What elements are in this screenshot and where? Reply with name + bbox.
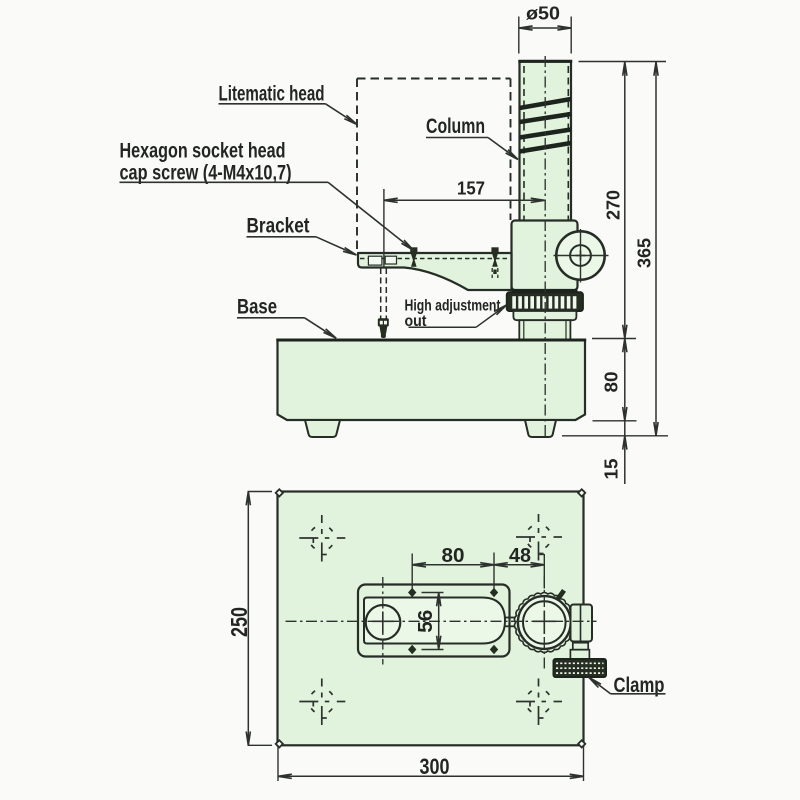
label Litematic head: [219, 83, 358, 125]
dimension 250: [226, 492, 272, 746]
spindle hole circle plan: [366, 605, 401, 640]
clamp ring outer circle: [518, 596, 571, 649]
svg-text:High adjustment: High adjustment: [405, 298, 501, 315]
dimension 15: [601, 421, 628, 484]
column spiral thread bands: [520, 99, 572, 152]
Litematic head dashed outline: [357, 79, 511, 254]
clamp knurled knob: [554, 659, 607, 677]
clamp ring inner circle: [523, 601, 566, 644]
clamp lever mark: [556, 589, 566, 601]
dimension 80 plan: [412, 544, 494, 590]
contact point: [378, 318, 389, 338]
base front view: [276, 340, 586, 420]
left foot: [305, 420, 340, 437]
label Bracket: [247, 215, 357, 256]
svg-text:Hexagon socket head: Hexagon socket head: [120, 140, 286, 163]
label Column: [426, 115, 518, 160]
label High adjustment out: [405, 298, 507, 331]
dimension 80 front: [601, 339, 628, 421]
label Base: [237, 296, 336, 339]
svg-text:270: 270: [603, 190, 624, 220]
bolt hole symbol top-right: [516, 514, 562, 561]
bolt hole symbol top-left: [299, 515, 345, 562]
housing bottom line: [512, 289, 578, 292]
column inner dashed lines: [524, 66, 568, 291]
svg-text:Litematic head: Litematic head: [219, 83, 325, 106]
dimension 300: [278, 745, 584, 781]
fine adjustment knob: [554, 229, 609, 283]
hexagon socket head cap screw 1: [410, 247, 417, 266]
svg-text:365: 365: [634, 238, 655, 268]
clamp neck: [570, 643, 589, 659]
housing block: [512, 221, 578, 291]
bracket plan inner slot: [364, 598, 505, 644]
svg-text:56: 56: [414, 610, 437, 633]
svg-text:Column: Column: [426, 115, 485, 138]
dimension ø50: [519, 3, 571, 54]
extension line base top: [592, 338, 636, 340]
svg-text:80: 80: [442, 544, 465, 567]
plan vertical centre line column: [543, 576, 545, 669]
height adjustment knurled nut: [507, 292, 583, 311]
extension line feet bottom: [562, 435, 668, 437]
clamp block: [571, 605, 593, 642]
base plan rectangle: [278, 492, 584, 746]
top extension line: [579, 61, 667, 63]
svg-text:cap screw (4-M4x10,7): cap screw (4-M4x10,7): [120, 162, 292, 185]
plan horizontal centre line: [286, 620, 597, 622]
dimension 56 plan: [414, 593, 444, 650]
label hexagon socket head cap screw: [120, 140, 414, 251]
clamp ring scalloped edge: [514, 592, 574, 652]
dimension 48 plan: [494, 544, 544, 589]
column body: [518, 61, 572, 221]
dimension 365: [634, 62, 659, 436]
svg-text:Bracket: Bracket: [247, 215, 310, 238]
dimension 270: [603, 62, 628, 339]
flange below nut: [513, 311, 576, 320]
bracket clearance notches: [368, 256, 396, 265]
plan corner diamond marks: [276, 489, 586, 747]
spindle dashed stem: [381, 268, 387, 319]
plan circle centre solid crosses: [372, 611, 556, 634]
bracket screw diamonds plan: [408, 588, 498, 655]
svg-text:250: 250: [226, 607, 252, 637]
svg-text:300: 300: [420, 754, 450, 779]
hexagon socket head cap screw 2: [491, 247, 498, 278]
bolt hole symbol bottom-left: [299, 679, 345, 726]
svg-text:ø50: ø50: [526, 3, 560, 24]
bracket front view: [358, 253, 512, 290]
label Clamp: [589, 674, 666, 697]
dimension 157: [384, 178, 545, 268]
extension line base bottom: [593, 420, 637, 422]
bolt hole symbol bottom-right: [516, 679, 562, 726]
slot to clamp ring connector: [505, 618, 519, 627]
column lower neck: [519, 320, 570, 339]
svg-text:80: 80: [601, 372, 622, 393]
right foot: [525, 420, 556, 437]
svg-text:157: 157: [457, 178, 485, 199]
plan vertical centre line spindle: [382, 577, 384, 665]
column centre line: [544, 56, 546, 437]
bracket plan outer plate: [358, 585, 510, 657]
svg-text:Base: Base: [237, 296, 277, 319]
svg-text:15: 15: [601, 459, 622, 480]
svg-text:48: 48: [509, 544, 531, 567]
